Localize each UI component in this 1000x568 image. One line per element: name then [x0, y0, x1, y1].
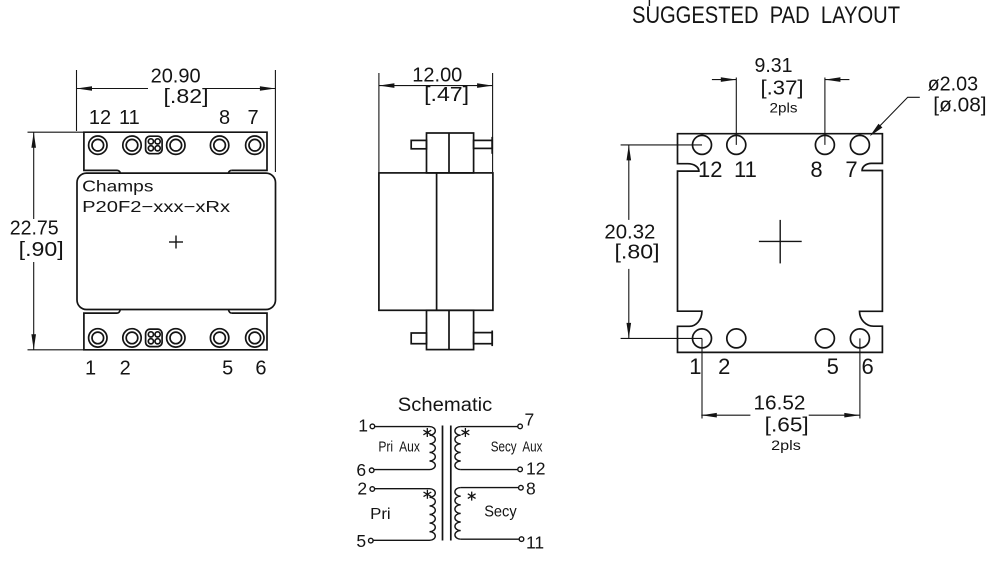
svg-text:2pls: 2pls [771, 437, 801, 453]
side body outline [379, 173, 493, 310]
wire Secy to pin 11 [461, 538, 519, 540]
svg-text:[.90]: [.90] [19, 239, 64, 261]
svg-text:8: 8 [526, 479, 536, 499]
pad center cross horizontal [759, 240, 802, 242]
eyelet pin 1 outer [89, 329, 107, 347]
eyelet pin 7 outer [246, 136, 264, 154]
dimension 16.52 extension line pad 1 [701, 338, 703, 418]
svg-text:[ø.08]: [ø.08] [933, 95, 986, 117]
arrow left of 12.00 [379, 83, 395, 88]
svg-text:8: 8 [810, 157, 822, 182]
core hole bottom block br [155, 339, 160, 344]
dia 2.03 leader arrowhead [870, 124, 883, 137]
terminal pin 2 [370, 487, 375, 492]
winding Pri Aux coil [430, 427, 436, 470]
polarity star Secy [468, 492, 476, 501]
svg-text:6: 6 [255, 358, 266, 380]
terminal pin 11 [519, 537, 524, 542]
dimension 9.31 extension line pin 8 [824, 78, 826, 145]
pad 8 [815, 135, 834, 154]
eyelet pin 5 outer [210, 329, 228, 347]
arrow left of 16.52 [701, 413, 717, 418]
polarity star Secy Aux [462, 428, 470, 437]
core hole bottom block tl [148, 332, 153, 337]
core hole bottom-right [155, 146, 160, 151]
bottom pin block divider [448, 310, 450, 349]
top pin block divider [448, 133, 450, 173]
wire pin 2 to Pri [375, 488, 430, 490]
svg-text:[.65]: [.65] [765, 415, 809, 437]
dimension 16.52 line right segment [809, 414, 860, 416]
dimension 9.31 right arrow line [825, 79, 850, 81]
bottom-right pin end cap [491, 331, 493, 347]
bottom strip right step [228, 310, 231, 314]
dimension 12.00 extension line right [492, 73, 494, 172]
polarity cross (top view) vertical [175, 236, 177, 249]
svg-text:12: 12 [89, 107, 111, 129]
arrow right of 12.00 [477, 83, 493, 88]
fold tick above title [648, 0, 650, 6]
svg-text:7: 7 [247, 107, 258, 129]
terminal pin 7 [518, 424, 523, 429]
terminal pin 12 [518, 467, 523, 472]
dimension 22.75 extension line bottom [28, 349, 84, 351]
polarity star Pri Aux [423, 428, 431, 437]
dimension 16.52 line left segment [701, 414, 750, 416]
core hole block (bottom) [146, 329, 163, 347]
core line left [442, 426, 444, 541]
arrow right of 20.90 [260, 86, 276, 91]
eyelet pin 12 outer [89, 136, 107, 154]
dimension 22.75 line lower segment [33, 262, 35, 350]
top pin strip outline [84, 132, 267, 170]
svg-text:5: 5 [222, 358, 233, 380]
arrow left of 20.90 [77, 86, 93, 91]
svg-text:Pri: Pri [370, 506, 391, 523]
dimension 20.32 line upper segment [628, 145, 630, 220]
svg-text:Secy Aux: Secy Aux [491, 438, 543, 455]
svg-text:[.82]: [.82] [164, 86, 209, 108]
svg-text:2: 2 [120, 358, 131, 380]
terminal pin 1 [370, 424, 375, 429]
bottom pin block [427, 310, 474, 349]
wire pin 8 to Secy [461, 487, 519, 489]
svg-text:6: 6 [861, 354, 873, 379]
svg-text:P20F2−xxx−xRx: P20F2−xxx−xRx [82, 199, 230, 216]
svg-text:16.52: 16.52 [754, 393, 806, 415]
eyelet pin 8 inner [214, 139, 226, 151]
svg-text:Schematic: Schematic [398, 395, 492, 416]
svg-text:1: 1 [689, 354, 701, 379]
top-right pin [474, 140, 493, 148]
core line right [450, 426, 452, 541]
core hole top-left [148, 139, 153, 144]
svg-text:1: 1 [85, 358, 96, 380]
dimension 20.90 line right segment [204, 88, 275, 90]
wire Pri to pin 5 [373, 539, 429, 541]
bottom pin strip outline [84, 313, 267, 350]
bottom-left pin [411, 333, 426, 344]
pad 7 [850, 135, 869, 154]
eyelet pin 12 inner [92, 139, 104, 151]
svg-text:1: 1 [358, 416, 368, 436]
svg-text:[.80]: [.80] [615, 242, 660, 264]
dimension 16.52 extension line pad 6 [859, 338, 861, 418]
pad layout outline with notches [678, 134, 883, 353]
core hole bottom block bl [148, 339, 153, 344]
dimension 12.00 line [379, 85, 493, 87]
svg-text:2pls: 2pls [770, 100, 798, 116]
bottom-right pin [474, 333, 493, 344]
eyelet pin 6 inner [249, 332, 261, 344]
eyelet unlabeled (top middle) inner [170, 139, 182, 151]
dia 2.03 leader line [872, 97, 920, 134]
svg-text:11: 11 [734, 157, 757, 182]
svg-text:ø2.03: ø2.03 [928, 74, 979, 96]
winding Secy coil [455, 488, 461, 540]
svg-text:2: 2 [357, 479, 367, 499]
pad 1 [693, 329, 712, 348]
arrow down of 20.32 [627, 323, 632, 339]
pad 5 [815, 329, 834, 348]
terminal pin 5 [369, 538, 374, 543]
terminal pin 8 [519, 485, 524, 490]
dimension 20.90 [.82] extension line left [76, 70, 78, 131]
svg-text:8: 8 [219, 107, 230, 129]
polarity cross (top view) horizontal [169, 241, 183, 243]
terminal pin 6 [369, 468, 374, 473]
winding Pri coil [430, 489, 436, 541]
dimension 20.90 line left segment [77, 88, 149, 90]
eyelet pin 5 inner [214, 332, 226, 344]
dimension 20.32 line lower segment [628, 269, 630, 339]
wire Pri Aux to pin 6 [374, 469, 429, 471]
arrow left toward pin 8 [825, 77, 841, 82]
dimension 20.32 extension line top [621, 144, 702, 146]
wire pin 7 to Secy Aux [461, 426, 518, 428]
pad 2 [727, 329, 746, 348]
dimension 20.90 [.82] extension line right [274, 70, 276, 172]
eyelet pin 6 outer [246, 329, 264, 347]
svg-text:Champs: Champs [82, 179, 153, 196]
side body parting line [436, 173, 438, 310]
top strip left step [117, 170, 120, 173]
pad 11 [727, 135, 746, 154]
dimension 20.32 extension line bottom [621, 337, 702, 339]
winding Secy Aux coil [455, 427, 461, 470]
svg-text:5: 5 [827, 354, 839, 379]
eyelet pin 11 outer [123, 136, 141, 154]
svg-text:7: 7 [845, 157, 857, 182]
top-left pin [411, 140, 426, 148]
svg-text:[.37]: [.37] [761, 78, 804, 100]
svg-text:SUGGESTED PAD LAYOUT: SUGGESTED PAD LAYOUT [632, 2, 900, 29]
eyelet pin 2 inner [126, 332, 138, 344]
svg-text:Pri Aux: Pri Aux [378, 438, 420, 455]
svg-text:12: 12 [526, 459, 545, 479]
eyelet pin 11 inner [126, 139, 138, 151]
dimension 9.31 extension line pin 11 [735, 78, 737, 145]
arrow right toward pin 11 [721, 77, 737, 82]
svg-text:Secy: Secy [484, 504, 517, 521]
eyelet pin 8 outer [210, 136, 228, 154]
svg-text:9.31: 9.31 [755, 55, 793, 77]
wire pin 1 to Pri Aux [375, 426, 430, 428]
dimension 9.31 left arrow line [712, 79, 736, 81]
svg-text:7: 7 [525, 409, 535, 429]
arrow up of 20.32 [627, 145, 632, 161]
wire Secy Aux to pin 12 [461, 469, 518, 471]
dimension 22.75 line upper segment [33, 132, 35, 219]
package body outline [77, 173, 276, 309]
svg-text:5: 5 [356, 531, 366, 551]
svg-text:[.47]: [.47] [424, 84, 469, 106]
core hole top-right [155, 139, 160, 144]
svg-text:22.75: 22.75 [10, 217, 59, 239]
svg-text:6: 6 [356, 460, 366, 480]
polarity star Pri [424, 490, 432, 499]
core hole bottom-left [148, 146, 153, 151]
arrow right of 16.52 [844, 413, 860, 418]
arrow up of 22.75 [31, 132, 36, 148]
eyelet unlabeled (top middle) outer [167, 136, 185, 154]
arrow down of 22.75 [31, 334, 36, 350]
pad 12 [693, 135, 712, 154]
core hole bottom block tr [155, 332, 160, 337]
core hole block (top) [146, 136, 163, 154]
top pin block [427, 133, 474, 173]
top strip right step [228, 170, 231, 173]
eyelet pin 7 inner [249, 139, 261, 151]
pad 6 [850, 329, 869, 348]
svg-text:12: 12 [698, 157, 722, 182]
eyelet pin 2 outer [123, 329, 141, 347]
top-right pin end cap [491, 137, 493, 154]
dimension 22.75 extension line top [28, 131, 84, 133]
svg-text:2: 2 [718, 354, 730, 379]
svg-text:11: 11 [526, 532, 544, 552]
svg-text:11: 11 [119, 107, 140, 129]
svg-text:20.90: 20.90 [151, 66, 201, 88]
bottom strip left step [117, 310, 120, 314]
pad center cross vertical [779, 220, 781, 264]
eyelet unlabeled (bottom middle) inner [170, 332, 182, 344]
eyelet pin 1 inner [92, 332, 104, 344]
dimension 12.00 extension line left [378, 73, 380, 172]
svg-text:20.32: 20.32 [604, 221, 655, 243]
eyelet unlabeled (bottom middle) outer [167, 329, 185, 347]
